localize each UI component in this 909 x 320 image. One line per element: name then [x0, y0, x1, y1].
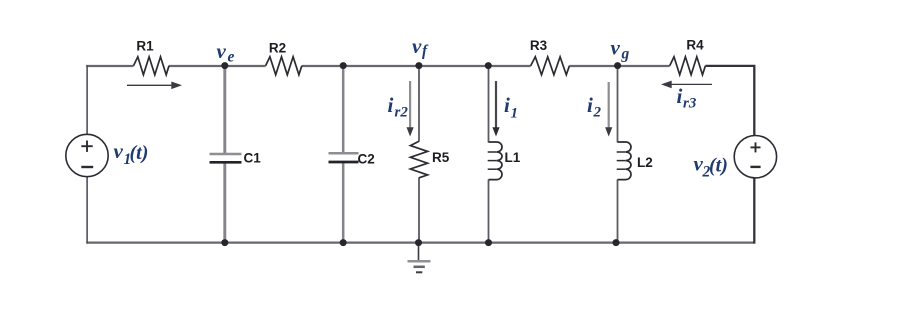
svg-text:1: 1 — [511, 106, 519, 122]
ground — [418, 243, 420, 261]
wire C2 branch upper — [342, 65, 345, 153]
svg-text:2: 2 — [593, 105, 602, 121]
resistor R2 — [266, 57, 302, 75]
svg-text:g: g — [621, 46, 630, 63]
wire L2 branch upper — [617, 65, 619, 143]
svg-text:i: i — [388, 93, 394, 117]
node vf dot — [415, 62, 422, 69]
svg-text:R2: R2 — [269, 41, 286, 56]
current arrow ir2 — [409, 81, 411, 130]
node ve dot — [221, 62, 228, 69]
capacitor C1 — [210, 153, 242, 156]
wire top between R2 and R3 — [302, 65, 531, 67]
resistor R1 — [134, 57, 170, 75]
wire bottom horizontal — [86, 242, 754, 244]
svg-text:R3: R3 — [530, 38, 548, 53]
svg-text:v: v — [611, 36, 621, 60]
wire left vertical below source — [86, 177, 88, 244]
inductor L1 — [489, 142, 502, 180]
svg-text:v: v — [217, 39, 227, 63]
wire C1 branch upper — [223, 65, 226, 153]
current arrow i2 — [608, 82, 610, 130]
wire C1 branch lower — [223, 162, 226, 243]
svg-text:C2: C2 — [358, 152, 375, 167]
wire left vertical above source — [86, 65, 88, 135]
node dots bottom — [221, 239, 228, 246]
wire R5 branch upper — [418, 65, 420, 142]
node vg dot — [614, 62, 621, 69]
svg-text:i: i — [587, 93, 593, 117]
node L1-top dot — [485, 62, 492, 69]
svg-text:r2: r2 — [395, 105, 409, 121]
svg-text:i: i — [504, 93, 510, 117]
wire right vertical below v2 — [753, 178, 755, 244]
svg-text:i: i — [677, 84, 683, 108]
wire top right dark segment with corner to v2 — [705, 66, 754, 135]
current arrow ir3 — [669, 83, 713, 85]
voltage source V2 — [734, 136, 776, 178]
wire top between R3 and R4 — [569, 65, 669, 67]
resistor R3 — [531, 57, 570, 75]
svg-text:L2: L2 — [637, 155, 653, 170]
wire L2 branch lower — [617, 180, 619, 244]
svg-text:r3: r3 — [683, 96, 697, 112]
svg-text:R4: R4 — [686, 38, 704, 53]
wire C2 branch lower — [342, 162, 345, 243]
current arrow under R1 — [127, 84, 173, 86]
svg-text:v: v — [412, 34, 422, 58]
svg-text:e: e — [228, 49, 235, 66]
inductor L2 — [618, 142, 632, 180]
current arrow i1 — [495, 81, 497, 130]
svg-text:R5: R5 — [432, 150, 450, 165]
voltage source V1 — [66, 134, 108, 176]
wire top horizontal left segment — [86, 65, 133, 67]
svg-text:C1: C1 — [244, 151, 262, 166]
svg-text:L1: L1 — [505, 150, 521, 165]
svg-text:R1: R1 — [136, 39, 154, 54]
svg-text:(t): (t) — [130, 142, 149, 164]
resistor R4 — [670, 57, 706, 75]
svg-text:(t): (t) — [709, 155, 728, 177]
wire L1 branch upper — [488, 65, 490, 143]
svg-text:v: v — [114, 139, 124, 163]
wire L1 branch lower — [488, 180, 490, 244]
wire top between R1 and R2 — [169, 65, 266, 67]
capacitor C2 — [329, 152, 359, 155]
wire R5 branch lower — [418, 178, 420, 244]
resistor R5 — [410, 141, 427, 178]
node C2-top dot — [340, 62, 347, 69]
